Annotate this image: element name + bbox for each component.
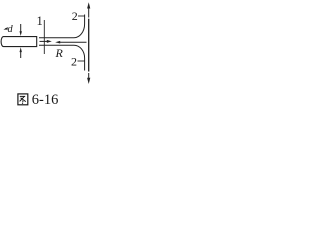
svg-text:2: 2 [72, 9, 78, 23]
svg-text:6-16: 6-16 [32, 92, 59, 108]
svg-text:1: 1 [37, 14, 43, 28]
svg-text:2: 2 [71, 55, 77, 69]
svg-text:R: R [55, 46, 64, 60]
svg-text:d: d [8, 24, 14, 35]
